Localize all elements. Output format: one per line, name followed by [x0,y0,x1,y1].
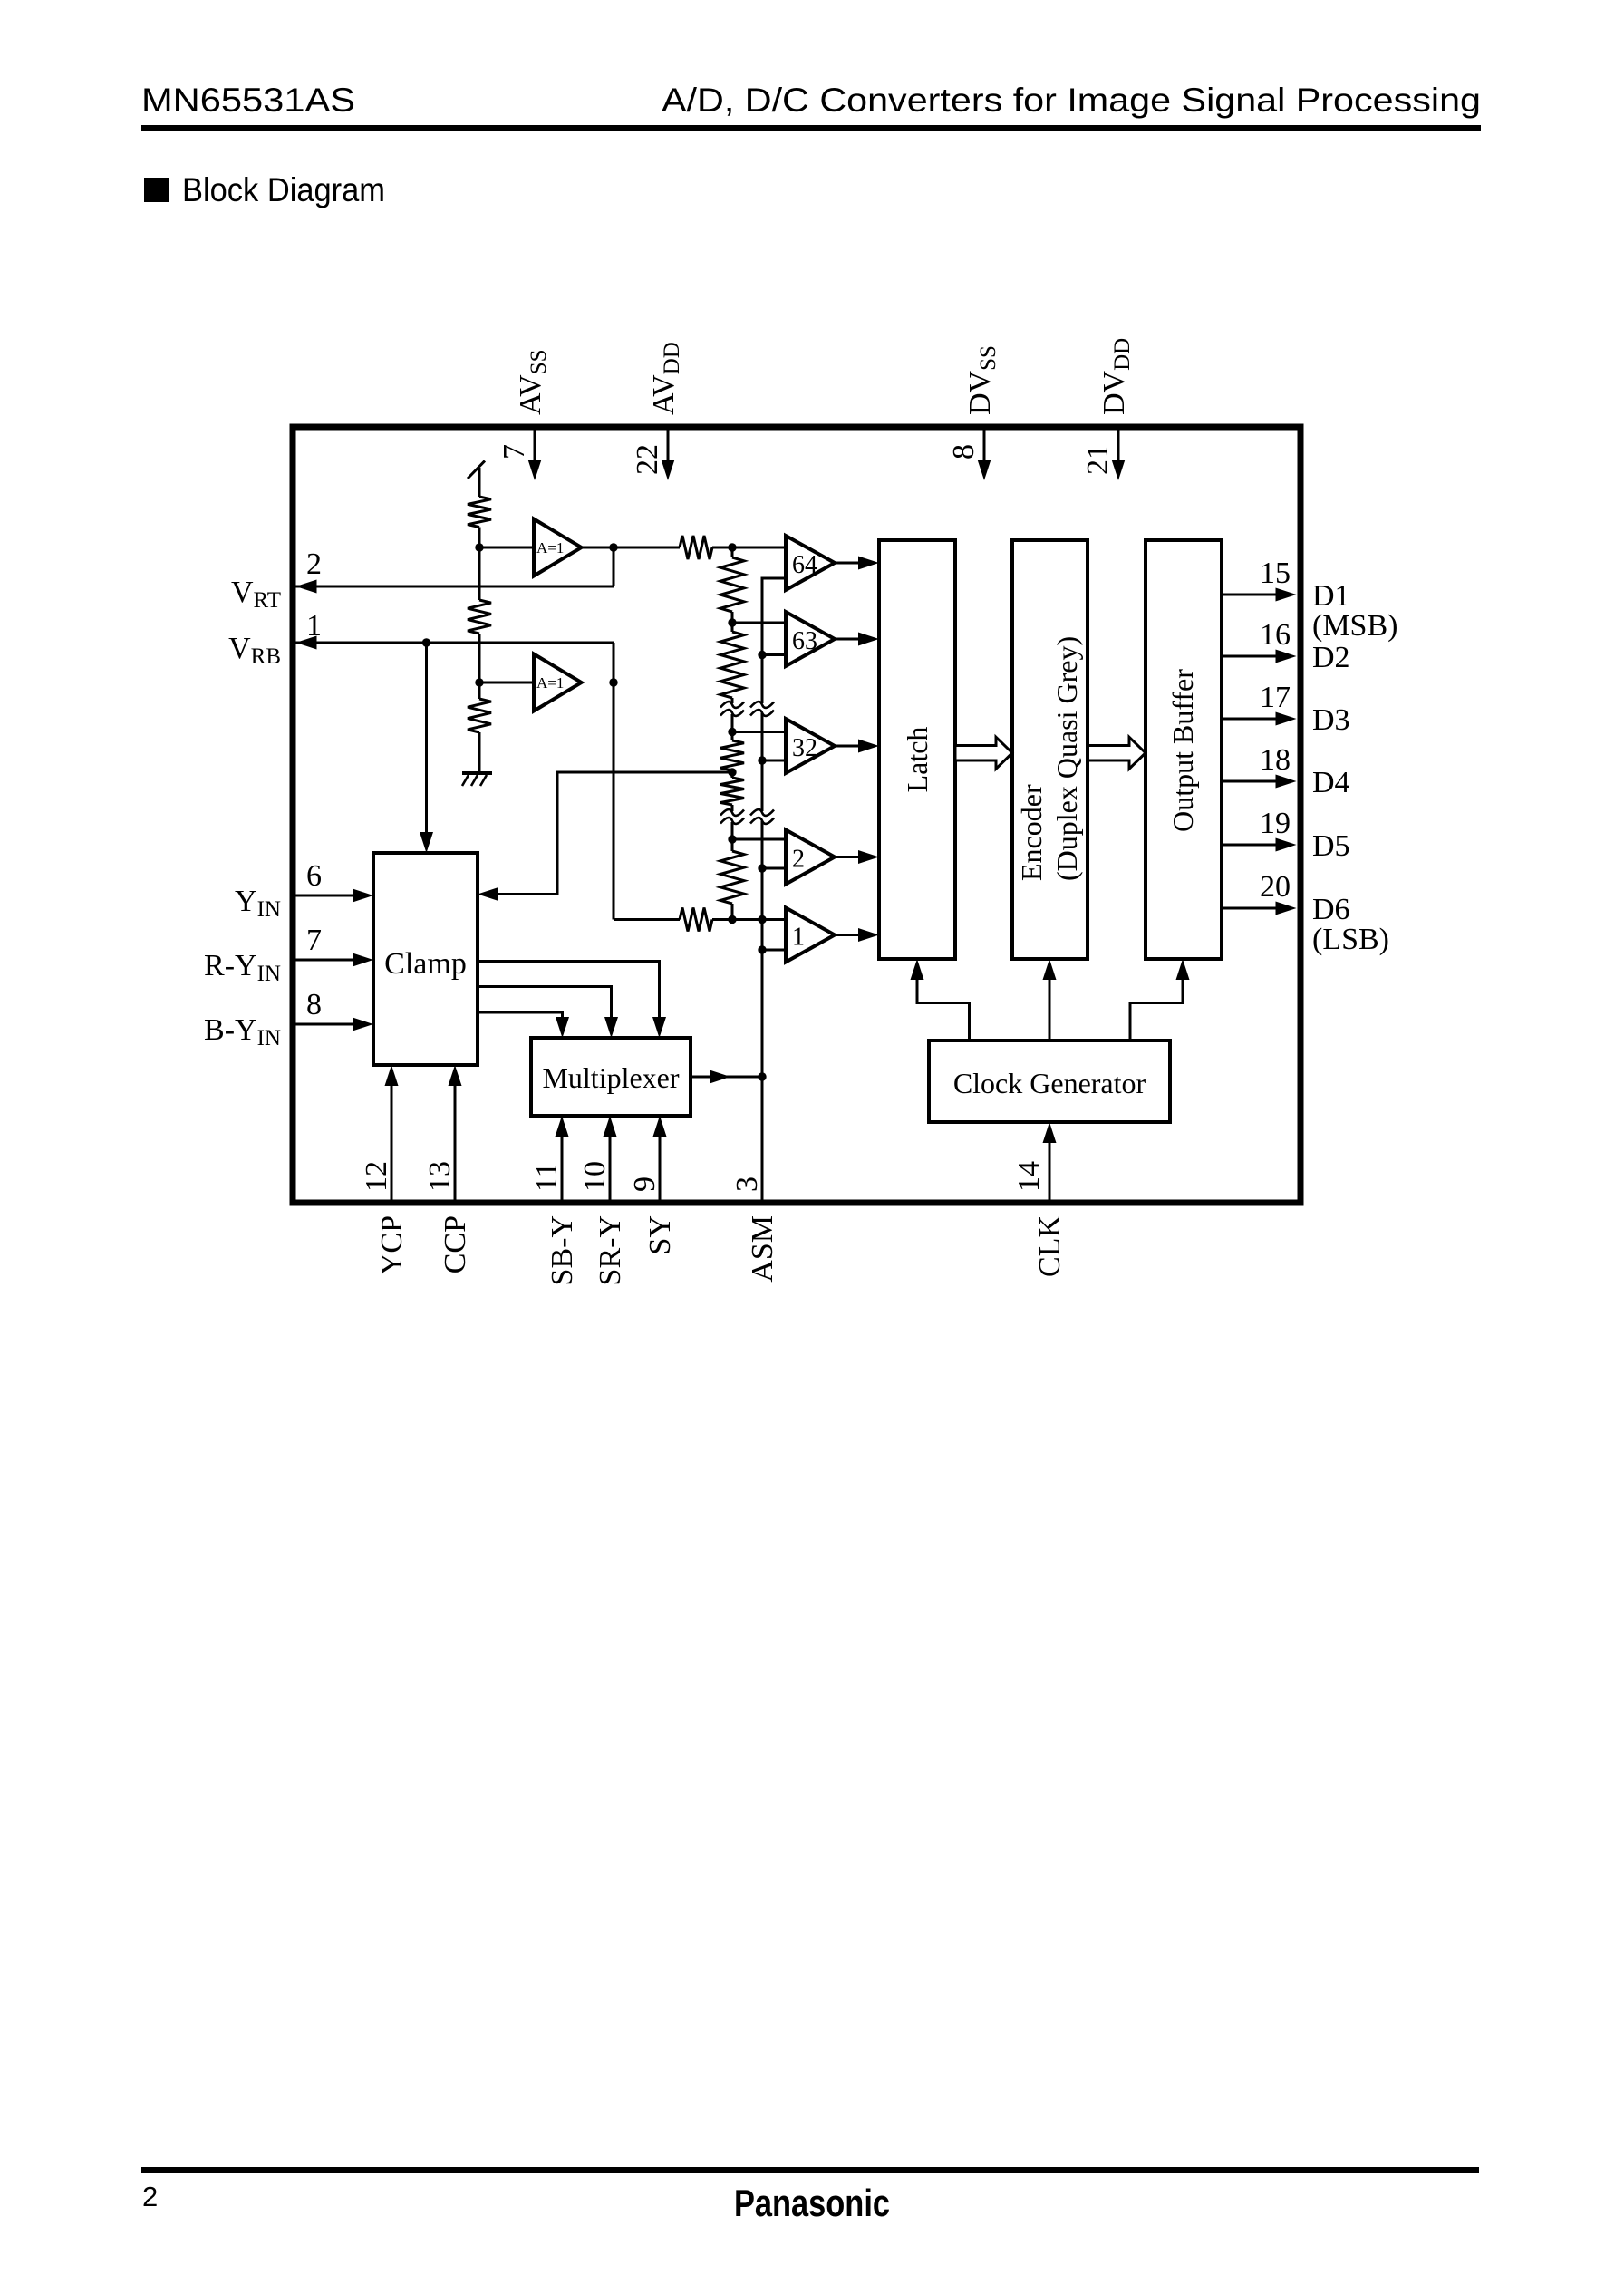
wire clamp out 3 [478,1012,569,1038]
svg-text:9: 9 [628,1176,662,1192]
svg-text:(MSB): (MSB) [1312,609,1397,643]
ladder resistor Le [720,851,744,904]
svg-text:Clamp: Clamp [384,947,467,981]
svg-text:D6: D6 [1312,893,1350,926]
wire tap 2 [732,838,786,841]
block Encoder (Duplex Quasi Grey) [1012,540,1087,959]
buffer amplifier A=1 #2 [534,654,582,711]
wire buffer2 output down [613,682,615,920]
svg-text:Multiplexer: Multiplexer [542,1061,679,1094]
bus tap node [758,945,766,953]
svg-text:22: 22 [631,444,664,475]
comparator 32 [786,719,835,773]
signal bus lower / ASM pin 3 [761,821,764,1206]
resistor ladder top feed [680,536,712,559]
svg-text:(LSB): (LSB) [1312,923,1389,956]
svg-text:MN65531AS: MN65531AS [141,82,355,119]
ladder wire seg e [731,770,734,778]
svg-text:YIN: YIN [235,885,281,922]
wire to ladder node 64 [712,547,786,549]
comparator 1 [786,908,835,963]
bus arrow Latch to Encoder [955,737,1012,769]
wire tap 1 [732,918,786,921]
svg-text:Panasonic: Panasonic [734,2182,890,2224]
wire buffer1 output down to VRT [613,547,615,586]
svg-text:CCP: CCP [439,1215,472,1273]
svg-text:7: 7 [498,444,531,460]
ladder resistor La [720,557,744,612]
ladder node 64 [728,543,736,551]
svg-text:ASM: ASM [746,1215,779,1283]
svg-text:VRB: VRB [228,632,281,669]
section marker Block Diagram [144,178,169,202]
wire buffer1 input [479,547,534,549]
svg-text:12: 12 [360,1161,393,1192]
bus tap wire [762,653,786,656]
svg-text:SB-Y: SB-Y [546,1215,579,1285]
wire to ladder node 1 [712,918,786,921]
ladder wire seg f [731,805,734,811]
buffer amplifier A=1 #1 [534,519,582,576]
wire clamp out 1 [478,962,666,1039]
pin 21 DVdd [1081,338,1135,480]
ladder wire seg h [731,904,734,920]
wire buffer1 output to ladder top [582,547,681,549]
bus node comparator1 ref crossing [758,915,766,924]
svg-text:A=1: A=1 [536,674,564,692]
wire R3 to ground [478,732,481,773]
pin 22 AVdd [631,342,684,480]
bus tap node [758,651,766,659]
svg-text:11: 11 [530,1162,564,1192]
wire VRB to clamp [420,643,433,853]
svg-text:21: 21 [1081,444,1115,475]
wire R2 to buffer2 input [478,634,481,699]
svg-text:YCP: YCP [375,1215,409,1275]
resistor chain R1 [468,497,491,528]
ladder node 2 [728,835,736,843]
svg-text:6: 6 [306,859,322,893]
wire to bottom feed resistor [614,918,680,921]
bus tap wire [762,949,786,952]
ladder wire seg c [731,698,734,703]
block Clock Generator [929,1041,1170,1122]
svg-text:AVDD: AVDD [647,342,684,415]
ladder wire seg g [731,822,734,851]
svg-text:32: 32 [792,734,817,762]
svg-text:7: 7 [306,924,322,957]
svg-text:10: 10 [578,1161,612,1192]
node VRB junction [422,638,430,646]
ladder wire seg d [731,714,734,740]
svg-text:Output Buffer: Output Buffer [1166,669,1199,832]
ground [462,773,492,786]
wire comparator 64 output [835,557,879,570]
pin 6 Yin [235,859,373,922]
svg-text:A=1: A=1 [536,539,564,557]
footer rule [141,2167,1479,2173]
svg-text:2: 2 [142,2181,158,2212]
pin 7 R-Yin [204,924,373,986]
arrow into clamp right [478,887,498,901]
wire comparator 2 output [835,850,879,864]
pin 15 D1 [1222,557,1397,643]
pin 7 AVss [498,349,551,480]
bus tap node [758,864,766,872]
wire clock to Latch [911,959,970,1041]
svg-text:3: 3 [730,1176,764,1192]
svg-text:(Duplex Quasi Grey): (Duplex Quasi Grey) [1050,636,1083,881]
pin 18 D4 [1222,743,1350,799]
ladder node 32 [728,728,736,736]
svg-text:R-YIN: R-YIN [204,949,281,986]
pin 16 D2 [1222,618,1350,674]
ladder wire seg a [731,547,734,557]
svg-text:63: 63 [792,627,817,655]
svg-text:SY: SY [643,1215,677,1254]
wire clock to Output Buffer [1130,959,1190,1041]
bus tap wire [762,867,786,870]
comparator 2 [786,830,835,885]
ladder node 1 [728,915,736,924]
wire clamp out 2 [478,987,618,1039]
svg-text:D5: D5 [1312,829,1350,863]
svg-text:20: 20 [1260,870,1290,904]
node buffer1 output [609,543,617,551]
svg-text:Encoder: Encoder [1015,784,1048,881]
comparator 64 [786,536,835,590]
pin 9 SY [628,1116,677,1254]
node buffer2 input [475,678,483,686]
pin 17 D3 [1222,681,1350,737]
ladder line break upper [720,702,744,708]
wire VRB over to buffer2 output [613,643,615,682]
pin 11 SB-Y [530,1116,579,1285]
block Output Buffer [1145,540,1222,959]
resistor chain R2 [468,600,491,634]
ladder resistor Ld [720,778,744,805]
svg-text:DVDD: DVDD [1097,338,1135,415]
svg-text:14: 14 [1012,1161,1046,1192]
svg-text:16: 16 [1260,618,1290,652]
chip boundary [293,427,1300,1203]
svg-text:VRT: VRT [231,576,281,613]
resistor chain R3 [468,699,491,732]
block Clamp [373,853,478,1065]
svg-text:A/D, D/C Converters for Image: A/D, D/C Converters for Image Signal Pro… [662,82,1481,119]
bus line break lower [750,809,774,816]
ladder line break lower [720,809,744,816]
wire ladder tap to clamp [495,772,732,895]
svg-text:2: 2 [306,547,322,581]
pin 14 CLK [1012,1122,1067,1277]
svg-text:DVSS: DVSS [963,345,1000,415]
bus line break upper [750,702,774,708]
bus node multiplexer output [758,1072,766,1080]
pin 12 YCP [360,1065,409,1275]
node buffer2 output [609,678,617,686]
wire tap 63 [732,622,786,624]
block Latch [879,540,955,959]
bus tap node [758,756,766,764]
pin 20 D6 [1222,870,1389,956]
ladder resistor Lc [720,740,744,770]
wire comparator 63 output [835,633,879,646]
svg-text:18: 18 [1260,743,1290,777]
comparator 63 [786,612,835,666]
svg-text:SR-Y: SR-Y [594,1215,627,1285]
wire comparator 32 output [835,740,879,753]
svg-text:CLK: CLK [1033,1215,1067,1277]
svg-text:B-YIN: B-YIN [204,1013,281,1050]
signal bus mid [761,713,764,811]
svg-text:D4: D4 [1312,766,1350,799]
ladder resistor Lb [720,632,744,698]
svg-text:17: 17 [1260,681,1290,714]
svg-text:D2: D2 [1312,641,1350,674]
wire buffer2 input [479,682,534,684]
svg-text:D1: D1 [1312,579,1350,613]
svg-text:13: 13 [423,1161,457,1192]
pin 10 SR-Y [578,1116,627,1285]
wire clock to Encoder [1043,959,1057,1041]
ladder wire seg b [731,612,734,632]
pin 19 D5 [1222,807,1350,863]
bus tap wire [762,760,786,762]
reference chain continuation slash [468,461,485,479]
svg-text:64: 64 [792,551,817,579]
wire tap 32 [732,731,786,733]
pin 2 VRT [231,547,614,613]
header rule [141,125,1481,131]
svg-text:1: 1 [792,924,805,952]
svg-text:2: 2 [792,846,805,874]
svg-text:Latch: Latch [901,727,933,793]
signal bus top turn [762,578,786,703]
svg-text:AVSS: AVSS [514,349,551,415]
resistor ladder bottom feed [680,908,712,932]
ladder node clamp tap [728,768,736,776]
block Multiplexer [531,1038,691,1116]
svg-text:Clock Generator: Clock Generator [953,1067,1146,1099]
svg-text:1: 1 [306,609,322,643]
wire R1 to node [478,528,481,601]
svg-text:8: 8 [947,444,981,460]
wire comparator 1 output [835,928,879,942]
pin 8 DVss [947,345,1000,480]
svg-text:15: 15 [1260,557,1290,590]
svg-text:19: 19 [1260,807,1290,840]
ladder node 63 [728,618,736,626]
wire multiplexer output [691,1070,762,1084]
node buffer1 input [475,543,483,551]
pin 1 VRB [228,609,614,669]
pin 8 B-Yin [204,988,373,1050]
svg-text:8: 8 [306,988,322,1021]
svg-text:D3: D3 [1312,703,1350,737]
svg-text:Block Diagram: Block Diagram [182,171,385,208]
bus arrow Encoder to Output Buffer [1088,737,1146,769]
pin 13 CCP [423,1065,472,1273]
wire chain top [478,468,481,497]
